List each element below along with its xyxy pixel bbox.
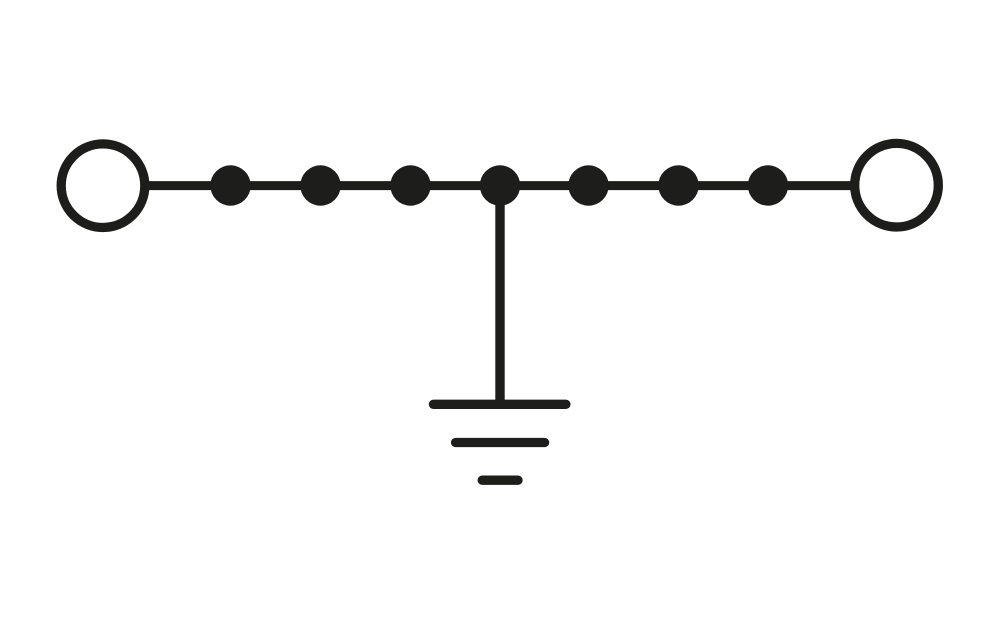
junction dot 2 xyxy=(300,165,340,205)
junction dot 5 xyxy=(568,165,608,205)
junction dot 4 (center node) xyxy=(480,165,520,205)
junction dot 7 xyxy=(748,165,788,205)
ground bar 3 (bottom, shortest) xyxy=(482,476,518,485)
ground bar 2 (middle) xyxy=(456,438,545,447)
terminal circle left (connection point) xyxy=(61,144,145,228)
junction dot 6 xyxy=(658,165,698,205)
junction dot 1 xyxy=(210,165,250,205)
ground (PE earth symbol) xyxy=(433,404,566,480)
terminal circle right (connection point) xyxy=(855,143,939,227)
ground bar 1 (top, widest) xyxy=(433,400,566,409)
junction dot 3 xyxy=(390,165,430,205)
wire vertical to ground xyxy=(495,195,504,404)
wire horizontal bus xyxy=(147,181,852,190)
